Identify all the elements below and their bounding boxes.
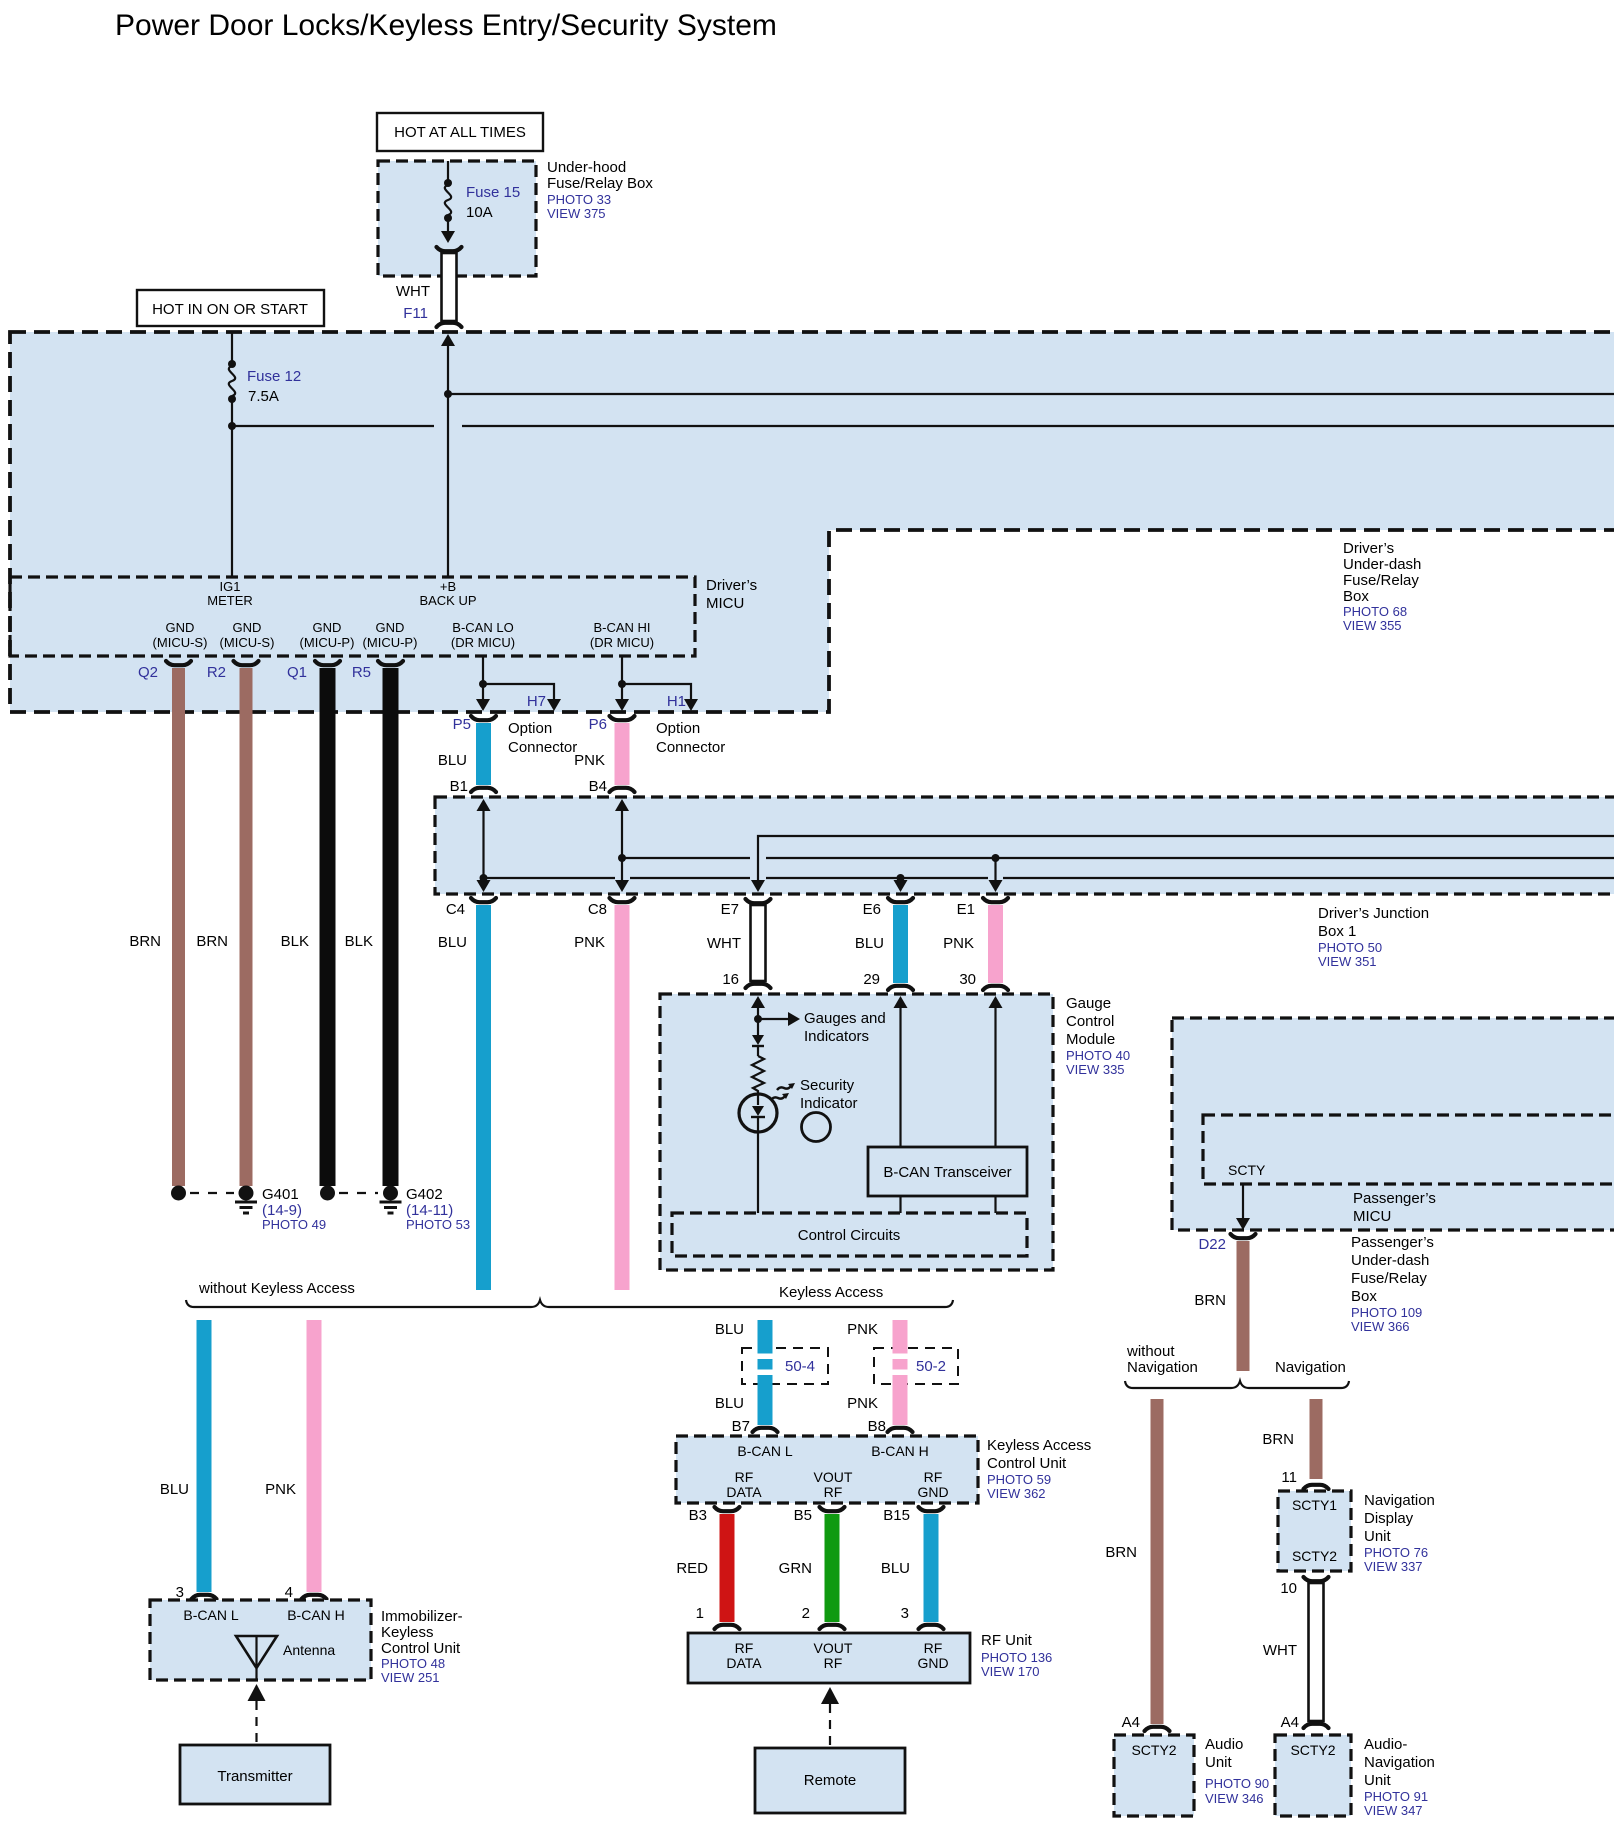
svg-text:P5: P5: [453, 716, 471, 733]
label option connector P5: [508, 720, 577, 756]
pin Q1: [287, 661, 340, 681]
svg-text:3: 3: [901, 1605, 909, 1622]
svg-text:PHOTO 136: PHOTO 136: [981, 1650, 1052, 1665]
svg-text:B1: B1: [450, 778, 468, 795]
svg-text:BLU: BLU: [715, 1321, 744, 1338]
wire BLU keyless B7: [715, 1320, 775, 1425]
label Keyless Access Control Unit: [987, 1437, 1091, 1501]
svg-text:(MICU-P): (MICU-P): [300, 635, 355, 650]
svg-text:BRN: BRN: [129, 933, 161, 950]
LED light rays: [771, 1083, 795, 1100]
svg-text:Immobilizer-: Immobilizer-: [381, 1608, 463, 1625]
svg-text:GND: GND: [376, 620, 405, 635]
wire BLK Q1-G402: [281, 668, 336, 1186]
label Audio Unit: [1205, 1736, 1269, 1806]
svg-text:BLU: BLU: [160, 1481, 189, 1498]
svg-text:B7: B7: [732, 1418, 750, 1435]
pin B-CAN H (immobilizer): [287, 1607, 345, 1623]
connector B1: [450, 778, 496, 795]
svg-text:B-CAN L: B-CAN L: [183, 1607, 238, 1623]
svg-text:Passenger’s: Passenger’s: [1353, 1190, 1436, 1207]
svg-text:PHOTO 68: PHOTO 68: [1343, 604, 1407, 619]
svg-text:RF: RF: [735, 1640, 754, 1656]
wire BLU C4 long: [438, 905, 491, 1290]
resistor R1: [752, 1056, 764, 1095]
svg-text:GND: GND: [917, 1484, 948, 1500]
svg-text:7.5A: 7.5A: [248, 388, 279, 405]
label G402 (14-11) PHOTO 53: [406, 1186, 470, 1232]
svg-text:BRN: BRN: [1105, 1544, 1137, 1561]
connector 10: [1280, 1580, 1297, 1597]
svg-text:PNK: PNK: [574, 752, 605, 769]
svg-text:C4: C4: [446, 901, 465, 918]
svg-text:Unit: Unit: [1364, 1528, 1392, 1545]
svg-text:B4: B4: [589, 778, 607, 795]
svg-text:H7: H7: [527, 693, 546, 710]
wire branch H1: [622, 684, 698, 711]
label Navigation: [1275, 1359, 1346, 1376]
svg-text:HOT AT ALL TIMES: HOT AT ALL TIMES: [394, 124, 526, 141]
wire BRN D22: [1194, 1241, 1249, 1371]
connector A4 (audio unit): [1122, 1714, 1170, 1731]
svg-text:SCTY: SCTY: [1228, 1162, 1266, 1178]
wire PNK C8 long: [574, 905, 629, 1290]
connector E6 wire BLU: [855, 898, 913, 990]
label Under-hood Fuse/Relay Box: [547, 159, 653, 221]
svg-text:PNK: PNK: [847, 1395, 878, 1412]
wire bus C8-E1: [622, 854, 1614, 892]
label Immobilizer-Keyless Control Unit: [381, 1608, 463, 1685]
wire F11 to fuse box (arrow up): [441, 334, 455, 577]
svg-text:E6: E6: [863, 901, 881, 918]
svg-text:Navigation: Navigation: [1275, 1359, 1346, 1376]
svg-text:Unit: Unit: [1364, 1772, 1392, 1789]
pin Q2: [138, 661, 191, 681]
svg-text:BRN: BRN: [1194, 1292, 1226, 1309]
wire BLU P5-B1: [438, 723, 491, 785]
Navigation Display Unit box: [1278, 1491, 1351, 1571]
connector P5 option: [453, 716, 496, 733]
svg-text:GND: GND: [233, 620, 262, 635]
ground G402: [320, 1186, 402, 1214]
svg-text:VIEW 362: VIEW 362: [987, 1486, 1046, 1501]
svg-text:Audio-: Audio-: [1364, 1736, 1407, 1753]
svg-text:Under-hood: Under-hood: [547, 159, 626, 176]
pin 4: [285, 1584, 327, 1601]
svg-text:B8: B8: [868, 1418, 886, 1435]
svg-text:A4: A4: [1122, 1714, 1140, 1731]
pin B-CAN HI (DR MICU): [590, 620, 654, 650]
svg-text:VIEW 337: VIEW 337: [1364, 1559, 1423, 1574]
svg-text:HOT IN ON OR START: HOT IN ON OR START: [152, 301, 308, 318]
wire bus IG1 row (hop gap at x448): [228, 422, 1614, 430]
pin B-CAN L (immobilizer): [183, 1607, 238, 1623]
svg-text:Security: Security: [800, 1077, 855, 1094]
connector B4: [589, 778, 635, 795]
pin SCTY1: [1292, 1497, 1337, 1513]
wire BRN audio unit: [1105, 1399, 1163, 1724]
diode D1: [752, 1035, 764, 1056]
svg-text:Antenna: Antenna: [283, 1642, 335, 1658]
brace keyless options: [186, 1300, 953, 1307]
svg-text:Passenger’s: Passenger’s: [1351, 1234, 1434, 1251]
label Driver's MICU: [706, 577, 757, 612]
wire transmitter signal (dashed with arrow): [248, 1684, 266, 1745]
wire 29 to transceiver: [894, 996, 908, 1147]
svg-text:Audio: Audio: [1205, 1736, 1243, 1753]
svg-text:D22: D22: [1198, 1236, 1226, 1253]
svg-text:VIEW 335: VIEW 335: [1066, 1062, 1125, 1077]
svg-text:VOUT: VOUT: [814, 1640, 853, 1656]
svg-text:(MICU-S): (MICU-S): [220, 635, 275, 650]
wire BLK R5-G402: [345, 668, 399, 1186]
svg-text:R5: R5: [352, 664, 371, 681]
svg-text:2: 2: [802, 1605, 810, 1622]
fuse F15: [441, 161, 455, 243]
pin B-CAN LO (DR MICU): [451, 620, 515, 650]
svg-text:Unit: Unit: [1205, 1754, 1233, 1771]
wire BLU immobilizer: [160, 1320, 212, 1592]
Driver's Junction Box 1: [435, 797, 1614, 894]
svg-text:G402: G402: [406, 1186, 443, 1203]
svg-text:DATA: DATA: [726, 1484, 762, 1500]
connector E7 (WHT inline): [707, 899, 771, 988]
pin B-CAN H (KACU): [871, 1443, 929, 1459]
svg-text:VIEW 351: VIEW 351: [1318, 954, 1377, 969]
pin GND (MICU-S) 1: [153, 620, 208, 650]
svg-text:GND: GND: [313, 620, 342, 635]
label without Keyless Access: [198, 1280, 355, 1297]
wire B-CAN HI vertical: [615, 656, 629, 711]
label Keyless Access: [779, 1284, 883, 1301]
label Driver's Junction Box 1: [1318, 905, 1429, 969]
connector B3: [689, 1507, 740, 1524]
svg-text:E1: E1: [957, 901, 975, 918]
svg-text:BLK: BLK: [281, 933, 309, 950]
svg-text:RF: RF: [924, 1469, 943, 1485]
brace navigation options: [1125, 1381, 1349, 1388]
svg-text:PHOTO 40: PHOTO 40: [1066, 1048, 1130, 1063]
wire transceiver to control circuits right: [994, 1196, 996, 1213]
svg-text:BLK: BLK: [345, 933, 373, 950]
svg-text:PNK: PNK: [847, 1321, 878, 1338]
svg-text:MICU: MICU: [706, 595, 744, 612]
svg-text:B5: B5: [794, 1507, 812, 1524]
label without Navigation: [1126, 1343, 1198, 1376]
svg-text:PHOTO 48: PHOTO 48: [381, 1656, 445, 1671]
svg-text:PHOTO 76: PHOTO 76: [1364, 1545, 1428, 1560]
fuse F12: [228, 332, 236, 577]
svg-text:PHOTO 109: PHOTO 109: [1351, 1305, 1422, 1320]
connector 1 (RF unit): [696, 1605, 740, 1629]
svg-text:Fuse 12: Fuse 12: [247, 368, 301, 385]
svg-text:R2: R2: [207, 664, 226, 681]
label WHT F11: [396, 283, 430, 322]
svg-text:Control Unit: Control Unit: [381, 1640, 461, 1657]
connector 3 (RF unit): [901, 1605, 944, 1629]
svg-text:Q1: Q1: [287, 664, 307, 681]
pin RF GND (KACU): [917, 1469, 948, 1500]
svg-text:G401: G401: [262, 1186, 299, 1203]
svg-text:BLU: BLU: [855, 935, 884, 952]
label Passenger's Under-dash Fuse/Relay Box: [1351, 1234, 1434, 1334]
wire bus +B row: [444, 390, 1614, 398]
wire branch H7: [483, 684, 561, 711]
svg-text:C8: C8: [588, 901, 607, 918]
connector B5: [794, 1507, 845, 1524]
svg-text:Indicators: Indicators: [804, 1028, 869, 1045]
connector B8: [868, 1418, 913, 1435]
svg-text:Under-dash: Under-dash: [1343, 556, 1421, 573]
pin RF DATA (RF unit): [726, 1640, 762, 1671]
wire bus to E7: [751, 836, 1614, 892]
svg-text:MICU: MICU: [1353, 1208, 1391, 1225]
svg-text:Display: Display: [1364, 1510, 1414, 1527]
svg-text:SCTY2: SCTY2: [1290, 1742, 1335, 1758]
svg-text:Option: Option: [508, 720, 552, 737]
connector F11 (WHT inline connector): [437, 247, 462, 327]
Gauge Control Module box: [660, 994, 1053, 1270]
svg-text:F11: F11: [403, 305, 428, 322]
pin VOUT RF (RF unit): [814, 1640, 853, 1671]
RF Unit box: [688, 1633, 970, 1683]
svg-text:without: without: [1126, 1343, 1175, 1360]
wire GRN B5: [779, 1514, 840, 1622]
Keyless Access Control Unit box: [676, 1436, 978, 1503]
wire B1-C4 through junction box: [477, 799, 491, 892]
connector A4 (audio-nav unit): [1281, 1714, 1299, 1731]
pin +B BACK UP: [419, 579, 476, 608]
label Antenna: [283, 1642, 335, 1658]
svg-text:PHOTO 49: PHOTO 49: [262, 1217, 326, 1232]
svg-text:Connector: Connector: [508, 739, 577, 756]
svg-text:P6: P6: [589, 716, 607, 733]
svg-text:Navigation: Navigation: [1364, 1754, 1435, 1771]
wire B4-C8 through junction box: [615, 799, 629, 892]
svg-text:VOUT: VOUT: [814, 1469, 853, 1485]
svg-text:Connector: Connector: [656, 739, 725, 756]
label G401 (14-9) PHOTO 49: [262, 1186, 326, 1232]
svg-text:Control: Control: [1066, 1013, 1114, 1030]
wire BLU B15: [881, 1514, 939, 1622]
svg-text:+B: +B: [440, 579, 456, 594]
svg-text:BLU: BLU: [438, 934, 467, 951]
Audio Unit box: [1114, 1735, 1194, 1816]
svg-text:VIEW 355: VIEW 355: [1343, 618, 1402, 633]
svg-text:(MICU-S): (MICU-S): [153, 635, 208, 650]
svg-text:GND: GND: [917, 1655, 948, 1671]
Passenger's Under-dash Fuse/Relay Box: [1172, 1018, 1614, 1230]
label Navigation Display Unit: [1364, 1492, 1435, 1574]
connector C4: [446, 898, 496, 918]
svg-text:Control Unit: Control Unit: [987, 1455, 1067, 1472]
wire RED B3: [676, 1514, 734, 1622]
svg-text:B-CAN Transceiver: B-CAN Transceiver: [883, 1164, 1011, 1181]
svg-text:VIEW 170: VIEW 170: [981, 1664, 1040, 1679]
Passenger's MICU box: [1203, 1115, 1614, 1184]
svg-text:RED: RED: [676, 1560, 708, 1577]
svg-text:B-CAN LO: B-CAN LO: [452, 620, 513, 635]
svg-text:B15: B15: [883, 1507, 910, 1524]
svg-text:B-CAN H: B-CAN H: [287, 1607, 345, 1623]
B-CAN Transceiver box: [868, 1147, 1027, 1196]
pin SCTY2 (audio-nav unit): [1290, 1742, 1335, 1758]
svg-text:50-2: 50-2: [916, 1358, 946, 1375]
svg-text:Fuse 15: Fuse 15: [466, 184, 520, 201]
svg-text:Driver’s: Driver’s: [706, 577, 757, 594]
wire PNK immobilizer: [265, 1320, 321, 1592]
svg-text:PHOTO 90: PHOTO 90: [1205, 1776, 1269, 1791]
svg-text:PHOTO 53: PHOTO 53: [406, 1217, 470, 1232]
pin RF DATA (KACU): [726, 1469, 762, 1500]
wire PNK P6-B4: [574, 723, 629, 785]
pin GND (MICU-P) 1: [300, 620, 355, 650]
svg-text:Module: Module: [1066, 1031, 1115, 1048]
connector 2 (RF unit): [802, 1605, 845, 1629]
svg-text:PHOTO 91: PHOTO 91: [1364, 1789, 1428, 1804]
wire BRN Q2-G401: [129, 668, 185, 1186]
label RF Unit: [981, 1632, 1052, 1679]
svg-text:METER: METER: [207, 593, 253, 608]
label box HOT IN ON OR START: [137, 290, 324, 326]
label Passenger's MICU: [1353, 1190, 1436, 1225]
svg-text:(DR MICU): (DR MICU): [451, 635, 515, 650]
svg-text:RF: RF: [824, 1484, 843, 1500]
svg-text:without Keyless Access: without Keyless Access: [198, 1280, 355, 1297]
svg-text:GRN: GRN: [779, 1560, 812, 1577]
svg-text:Power Door Locks/Keyless Entry: Power Door Locks/Keyless Entry/Security …: [115, 9, 777, 42]
svg-text:11: 11: [1281, 1469, 1297, 1486]
svg-text:PHOTO 50: PHOTO 50: [1318, 940, 1382, 955]
svg-text:Navigation: Navigation: [1364, 1492, 1435, 1509]
svg-text:E7: E7: [721, 901, 739, 918]
svg-text:Fuse/Relay Box: Fuse/Relay Box: [547, 175, 653, 192]
svg-text:(MICU-P): (MICU-P): [363, 635, 418, 650]
svg-text:10A: 10A: [466, 204, 493, 221]
label Fuse 12 7.5A: [247, 368, 301, 405]
svg-text:PNK: PNK: [574, 934, 605, 951]
svg-text:Box: Box: [1343, 588, 1369, 605]
svg-text:PHOTO 33: PHOTO 33: [547, 192, 611, 207]
svg-text:B3: B3: [689, 1507, 707, 1524]
pin RF GND (RF unit): [917, 1640, 948, 1671]
label Fuse 15 10A: [466, 184, 520, 221]
svg-text:Q2: Q2: [138, 664, 158, 681]
svg-text:PNK: PNK: [265, 1481, 296, 1498]
pin SCTY2 (audio unit): [1131, 1742, 1176, 1758]
svg-text:10: 10: [1280, 1580, 1297, 1597]
Immobilizer-Keyless Control Unit box: [150, 1600, 371, 1680]
svg-text:VIEW 366: VIEW 366: [1351, 1319, 1410, 1334]
svg-text:SCTY1: SCTY1: [1292, 1497, 1337, 1513]
svg-text:BACK UP: BACK UP: [419, 593, 476, 608]
label option connector P6: [656, 720, 725, 756]
Control Circuits box: [672, 1213, 1027, 1256]
svg-text:VIEW 346: VIEW 346: [1205, 1791, 1264, 1806]
svg-text:WHT: WHT: [396, 283, 430, 300]
pin SCTY2 (nav display): [1292, 1548, 1337, 1564]
svg-text:Remote: Remote: [804, 1772, 857, 1789]
svg-text:A4: A4: [1281, 1714, 1299, 1731]
Driver's MICU box: [10, 577, 695, 656]
label Gauge Control Module: [1066, 995, 1130, 1077]
connector 50-4: [742, 1348, 828, 1384]
LED security indicator lamp: [739, 1094, 777, 1213]
svg-text:BRN: BRN: [1262, 1431, 1294, 1448]
Under-hood Fuse/Relay Box: [378, 161, 536, 276]
label Security Indicator: [800, 1077, 858, 1112]
Audio-Navigation Unit box: [1275, 1735, 1351, 1816]
wire SCTY to D22: [1236, 1184, 1250, 1230]
TITLE: [115, 9, 777, 42]
ground G401: [171, 1186, 257, 1214]
svg-text:RF: RF: [924, 1640, 943, 1656]
label Driver's Under-dash Fuse/Relay Box: [1343, 540, 1421, 633]
svg-text:BLU: BLU: [438, 752, 467, 769]
svg-text:DATA: DATA: [726, 1655, 762, 1671]
svg-text:BLU: BLU: [881, 1560, 910, 1577]
svg-text:WHT: WHT: [707, 935, 741, 952]
svg-text:Box 1: Box 1: [1318, 923, 1356, 940]
svg-text:1: 1: [696, 1605, 704, 1622]
svg-text:Driver’s Junction: Driver’s Junction: [1318, 905, 1429, 922]
svg-text:WHT: WHT: [1263, 1642, 1297, 1659]
indicator circle: [802, 1113, 831, 1142]
pin VOUT RF (KACU): [814, 1469, 853, 1500]
svg-text:29: 29: [863, 971, 880, 988]
svg-text:BRN: BRN: [196, 933, 228, 950]
pin SCTY: [1228, 1162, 1266, 1178]
pin R2: [207, 661, 259, 681]
svg-text:SCTY2: SCTY2: [1292, 1548, 1337, 1564]
svg-text:(DR MICU): (DR MICU): [590, 635, 654, 650]
svg-text:16: 16: [722, 971, 739, 988]
svg-text:B-CAN L: B-CAN L: [737, 1443, 792, 1459]
svg-text:Indicator: Indicator: [800, 1095, 858, 1112]
Transmitter box: [180, 1745, 330, 1804]
label box HOT AT ALL TIMES: [377, 113, 543, 151]
Driver's Under-dash Fuse/Relay Box (L-shaped): [10, 332, 1614, 712]
svg-text:IG1: IG1: [220, 579, 241, 594]
connector B15: [883, 1507, 943, 1524]
svg-text:Box: Box: [1351, 1288, 1377, 1305]
wire WHT inline connector (nav): [1263, 1577, 1329, 1728]
svg-text:Keyless: Keyless: [381, 1624, 434, 1641]
wire PNK keyless B8: [847, 1320, 909, 1425]
svg-text:Driver’s: Driver’s: [1343, 540, 1394, 557]
svg-text:Option: Option: [656, 720, 700, 737]
svg-text:Control Circuits: Control Circuits: [798, 1227, 901, 1244]
wire BRN R2-G401: [196, 668, 252, 1186]
svg-text:Keyless Access: Keyless Access: [779, 1284, 883, 1301]
wire branch to Gauges and Indicators: [758, 1010, 886, 1045]
wire B-CAN LO vertical: [476, 656, 490, 711]
svg-text:Fuse/Relay: Fuse/Relay: [1343, 572, 1419, 589]
Remote box: [755, 1748, 905, 1813]
svg-text:VIEW 347: VIEW 347: [1364, 1803, 1423, 1818]
connector E1 wire PNK: [943, 898, 1008, 990]
svg-text:Navigation: Navigation: [1127, 1359, 1198, 1376]
svg-text:PNK: PNK: [943, 935, 974, 952]
connector C8: [588, 898, 635, 918]
pin GND (MICU-P) 2: [363, 620, 418, 650]
svg-text:Keyless Access: Keyless Access: [987, 1437, 1091, 1454]
pin R5: [352, 661, 403, 681]
svg-text:BLU: BLU: [715, 1395, 744, 1412]
svg-text:Under-dash: Under-dash: [1351, 1252, 1429, 1269]
wire 30 to transceiver: [989, 996, 1003, 1147]
svg-text:B-CAN HI: B-CAN HI: [593, 620, 650, 635]
